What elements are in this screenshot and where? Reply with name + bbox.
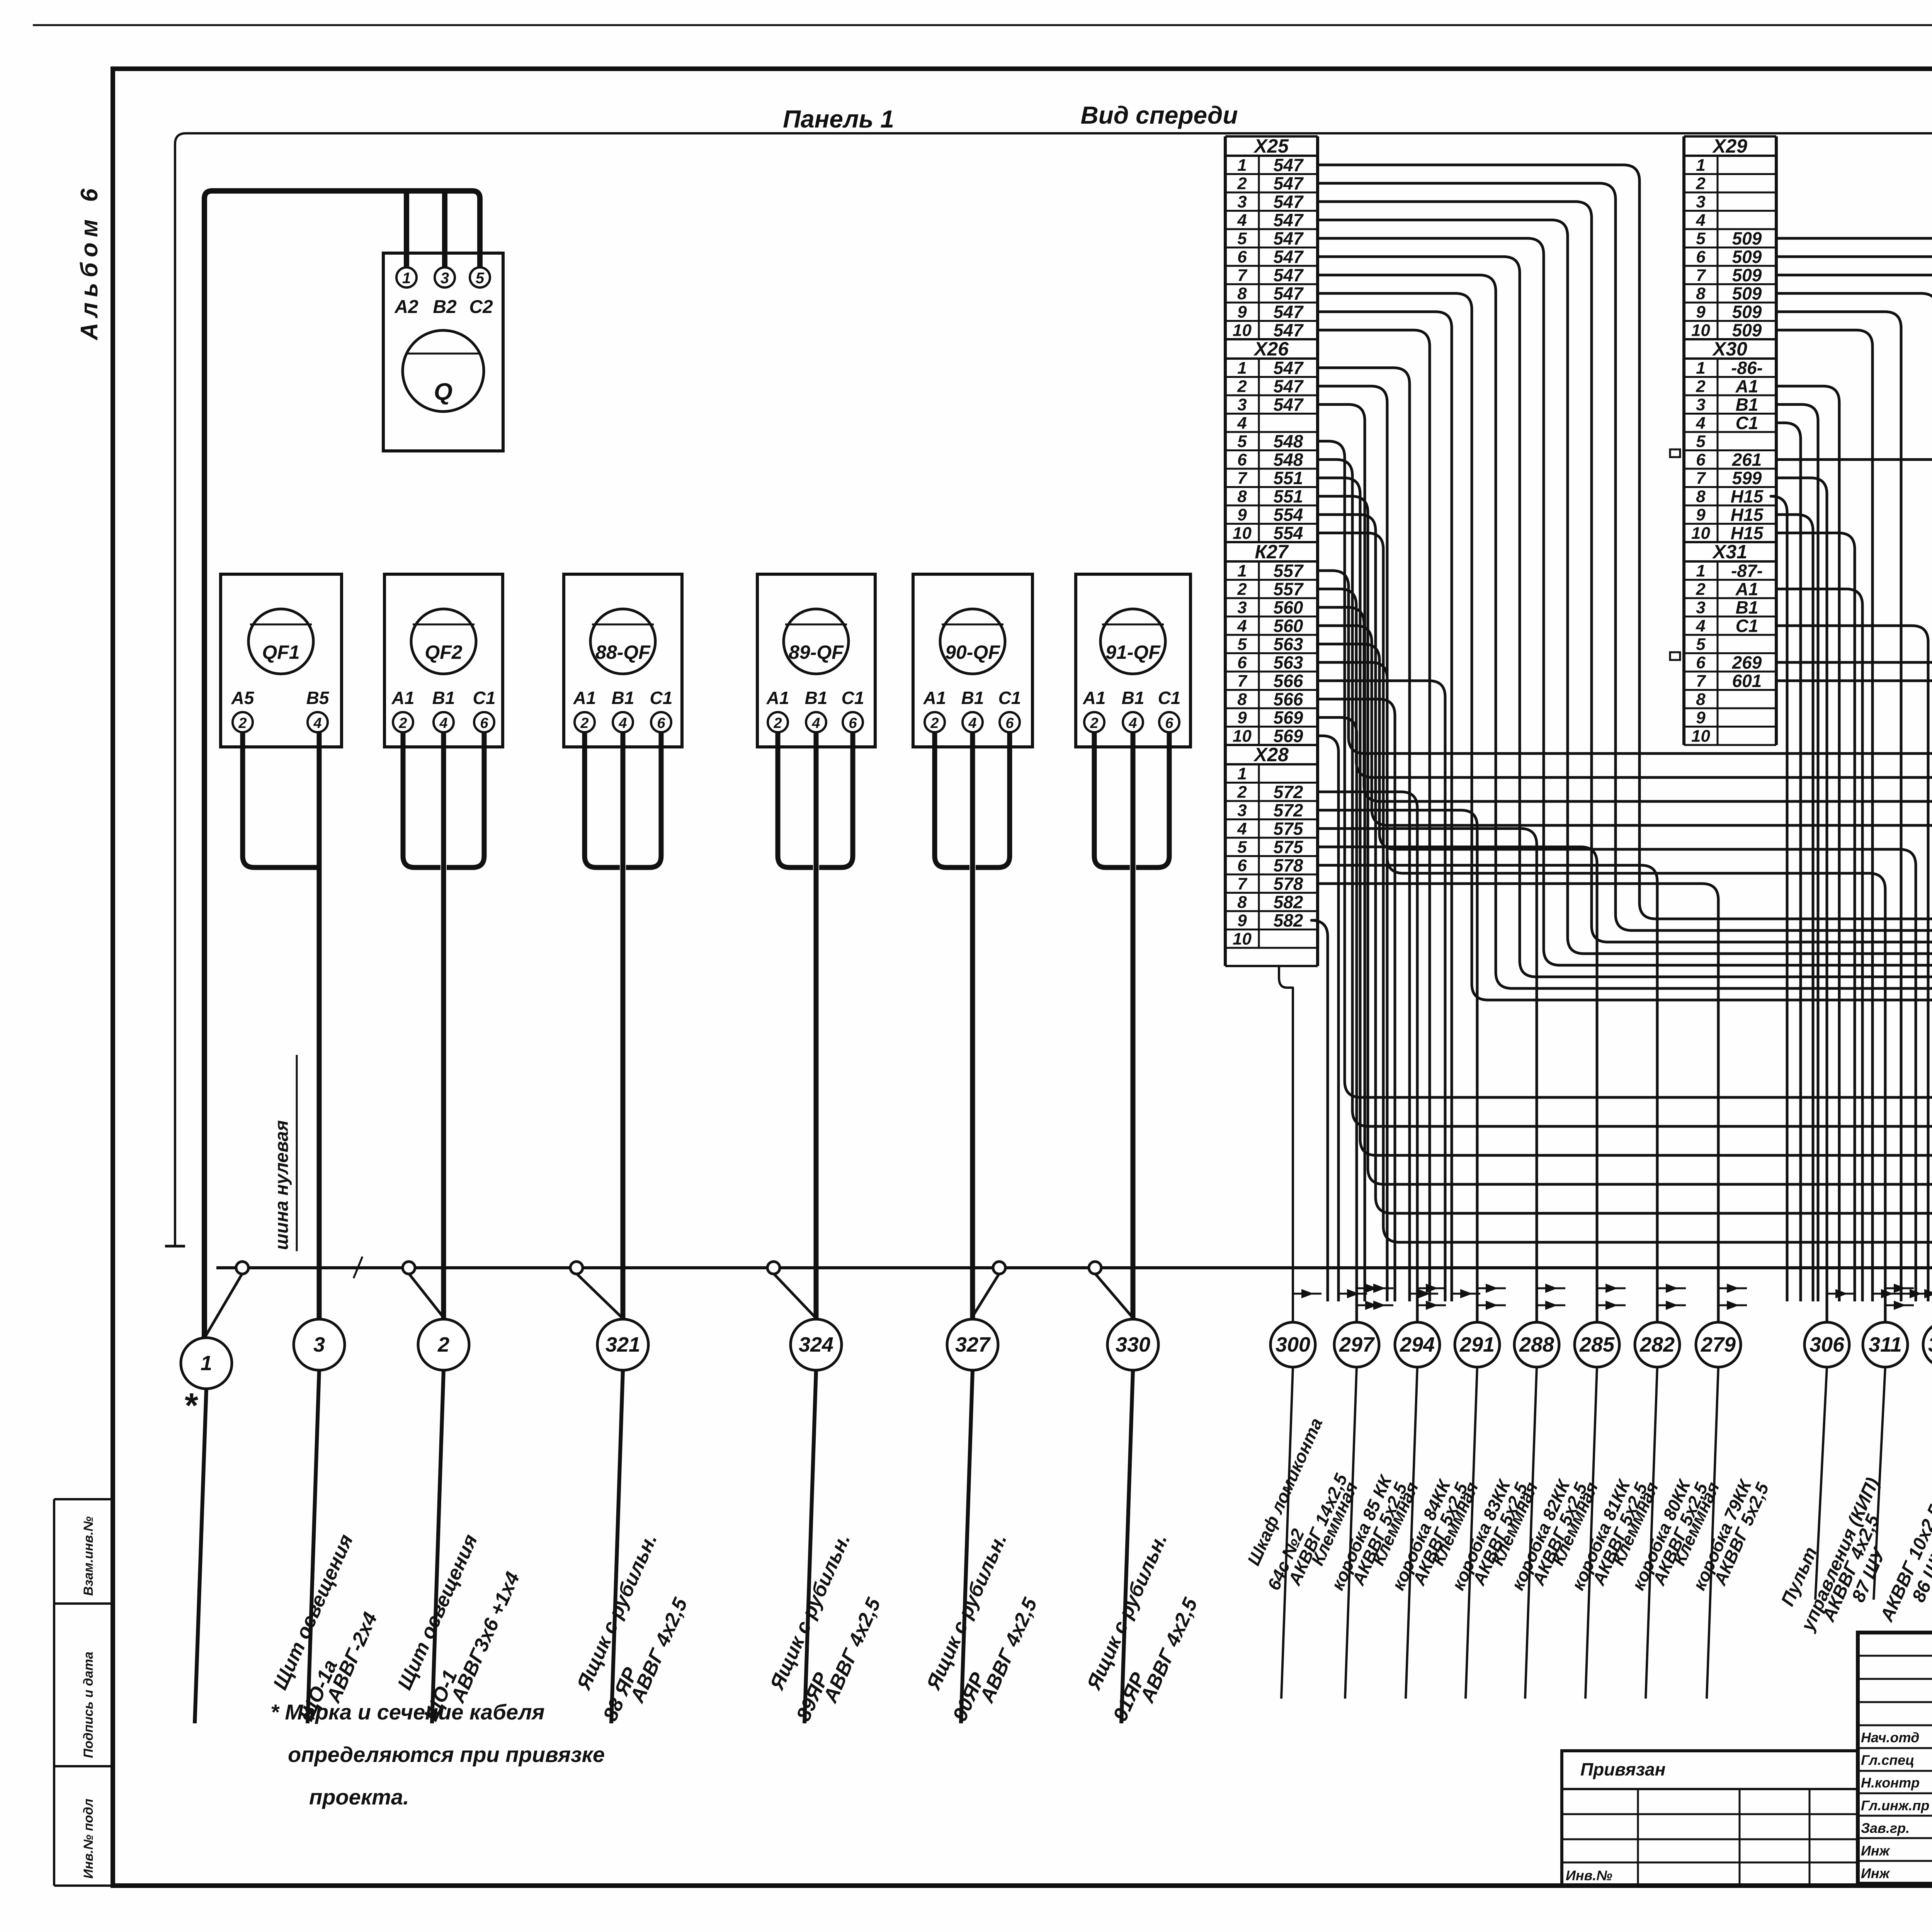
leader line of 285 (1585, 1367, 1597, 1699)
svg-text:Q: Q (434, 379, 452, 405)
circle node 311 (1863, 1322, 1908, 1367)
svg-text:10: 10 (1233, 524, 1252, 543)
svg-text:7: 7 (1237, 874, 1248, 893)
X25 row 1 val 547 (1225, 173, 1318, 175)
svg-text:578: 578 (1274, 874, 1303, 894)
svg-text:311: 311 (1869, 1333, 1902, 1356)
X31 row 2 val А1 (1684, 597, 1776, 599)
svg-text:6: 6 (1237, 248, 1247, 267)
X28 row 3 val 572 (1225, 818, 1318, 820)
svg-text:6: 6 (1165, 715, 1173, 731)
X25 row 5 val 547 (1225, 247, 1318, 248)
svg-text:4: 4 (968, 715, 976, 731)
svg-text:547: 547 (1274, 358, 1304, 378)
X28 row 1 val blank (1225, 782, 1318, 784)
leader line of 330 (1121, 1370, 1133, 1723)
svg-text:9: 9 (1237, 303, 1247, 321)
svg-text:2: 2 (1237, 580, 1247, 599)
svg-text:509: 509 (1732, 284, 1762, 304)
wire X29.9 (1776, 312, 1901, 1301)
X25 row 7 val 547 (1225, 283, 1318, 285)
wire X31.7 (1776, 681, 1932, 1301)
svg-text:5: 5 (1696, 432, 1706, 451)
svg-text:1: 1 (1237, 764, 1247, 783)
X28 row 9 val 582 (1225, 929, 1318, 930)
svg-text:551: 551 (1274, 468, 1303, 488)
X31 row 9 val blank (1684, 726, 1776, 728)
svg-text:566: 566 (1274, 671, 1303, 691)
svg-text:6: 6 (849, 715, 857, 731)
svg-text:-86-: -86- (1731, 358, 1763, 378)
neutral bus (шина нулевая) (216, 1266, 1932, 1269)
svg-text:6: 6 (1237, 451, 1247, 469)
wire X30.3 (1776, 405, 1818, 1301)
terminal strip X25 header (1225, 135, 1318, 138)
svg-text:269: 269 (1732, 653, 1762, 673)
svg-text:5: 5 (1696, 229, 1706, 248)
svg-text:554: 554 (1274, 505, 1303, 525)
X26 row 10 val 554 (1225, 541, 1318, 543)
wire X28.6 (1318, 865, 1657, 1322)
svg-text:5: 5 (1696, 635, 1706, 654)
terminal strip X31 header (1684, 541, 1776, 543)
wire K27.2 (1318, 589, 1932, 1322)
svg-text:554: 554 (1274, 523, 1303, 543)
X25 row 6 val 547 (1225, 265, 1318, 267)
svg-text:3: 3 (1696, 395, 1705, 414)
svg-text:6: 6 (1696, 653, 1706, 672)
X30 row 1 val -86- (1684, 376, 1776, 378)
leader line of 291 (1466, 1367, 1477, 1699)
svg-text:2: 2 (773, 715, 782, 731)
svg-text:304: 304 (1928, 1333, 1932, 1356)
svg-text:Н15: Н15 (1731, 486, 1764, 507)
X30 row 4 val С1 (1684, 431, 1776, 433)
svg-text:7: 7 (1696, 266, 1706, 285)
svg-text:определяются при привязке: определяются при привязке (288, 1742, 605, 1767)
X30 row 5 val blank (1684, 449, 1776, 451)
svg-text:4: 4 (439, 715, 447, 731)
svg-text:X25: X25 (1253, 135, 1289, 157)
wire stub to Q terminal 3 (442, 191, 447, 267)
svg-text:Гл.инж.пр: Гл.инж.пр (1861, 1798, 1929, 1813)
svg-text:547: 547 (1274, 155, 1304, 175)
svg-text:2: 2 (1237, 783, 1247, 802)
svg-text:А1: А1 (391, 688, 415, 708)
svg-text:547: 547 (1274, 192, 1304, 212)
svg-text:551: 551 (1274, 486, 1303, 507)
bus junction to circle 327 (969, 1274, 999, 1321)
wire K27.6 (1318, 662, 1885, 1322)
svg-text:578: 578 (1274, 855, 1303, 876)
terminal strip X26 header (1225, 338, 1318, 340)
X26 row 6 val 548 (1225, 468, 1318, 470)
svg-text:560: 560 (1274, 616, 1303, 636)
wires 90-QF merged down to circle 327 (935, 732, 969, 867)
wires 89-QF merged down to circle 324 (778, 732, 813, 867)
circle node 327 (947, 1319, 998, 1370)
svg-text:599: 599 (1732, 468, 1762, 488)
switch box Q (383, 253, 503, 451)
breaker box 89-QF (757, 574, 875, 747)
svg-text:В1: В1 (612, 688, 634, 708)
wire X28.8 drop to circle 300 (1279, 966, 1293, 1322)
svg-text:582: 582 (1274, 892, 1303, 912)
svg-text:2: 2 (580, 715, 588, 731)
svg-text:9: 9 (1696, 708, 1706, 727)
circle node 304 (1923, 1322, 1932, 1367)
svg-text:291: 291 (1459, 1333, 1495, 1356)
wire X30.7 to circle 306 (1776, 478, 1827, 1322)
wire X29.5 (1776, 238, 1932, 1301)
X29 row 3 val blank (1684, 210, 1776, 212)
svg-text:547: 547 (1274, 265, 1304, 285)
X28 row 7 val 578 (1225, 892, 1318, 894)
circle node 288 (1514, 1322, 1559, 1367)
sheet top trim line (33, 24, 1932, 26)
wire X25.8 (1318, 293, 1932, 1301)
svg-text:6: 6 (1237, 856, 1247, 875)
svg-text:Н15: Н15 (1731, 505, 1764, 525)
wire X28.9 (1311, 920, 1328, 1301)
X30 row 10 val Н15 (1684, 541, 1776, 543)
terminal strip X28 header (1225, 744, 1318, 746)
svg-text:8: 8 (1696, 690, 1706, 709)
К27 row 4 val 560 (1225, 634, 1318, 636)
К27 row 5 val 563 (1225, 652, 1318, 654)
wire X26.1 (1318, 368, 1410, 1301)
svg-text:В1: В1 (1736, 597, 1759, 617)
svg-text:2: 2 (1696, 377, 1706, 396)
svg-text:С1: С1 (650, 688, 673, 708)
wire X25.6 (1318, 257, 1932, 1301)
X25 row 2 val 547 (1225, 192, 1318, 194)
svg-text:601: 601 (1732, 671, 1762, 691)
svg-text:1: 1 (1696, 561, 1705, 580)
X28 row 4 val 575 (1225, 837, 1318, 839)
svg-text:324: 324 (799, 1333, 833, 1356)
wire X29.10 (1776, 330, 1872, 1301)
К27 row 3 val 560 (1225, 616, 1318, 617)
circle node 321 (597, 1319, 648, 1370)
wire K27.7 (1318, 681, 1445, 1301)
X29 row 7 val 509 (1684, 283, 1776, 285)
wire X26.10 (1318, 533, 1932, 1301)
svg-text:8: 8 (1237, 284, 1247, 303)
svg-text:509: 509 (1732, 228, 1762, 248)
bus junction to circle 324 (774, 1274, 819, 1321)
svg-text:10: 10 (1233, 930, 1252, 949)
breaker box 91-QF (1076, 574, 1190, 747)
wire X30.2 (1776, 386, 1839, 1301)
svg-text:10: 10 (1233, 727, 1252, 746)
wire K27.1 (1318, 571, 1932, 1301)
svg-text:509: 509 (1732, 247, 1762, 267)
svg-text:4: 4 (1696, 211, 1705, 230)
Привязан table (1562, 1751, 1858, 1886)
left table bottom blank strip (1225, 965, 1318, 967)
Q terminal 3 (435, 267, 455, 287)
svg-text:9: 9 (1237, 911, 1247, 930)
wire X25.2 (1318, 183, 1932, 1301)
connector stub X30-6 (1670, 449, 1680, 457)
svg-text:90-QF: 90-QF (945, 641, 1000, 663)
title block outer (1858, 1633, 1932, 1884)
svg-text:4: 4 (1237, 211, 1247, 230)
wire X31.2 (1776, 589, 1862, 1301)
svg-text:294: 294 (1400, 1333, 1435, 1356)
svg-text:А5: А5 (231, 688, 255, 708)
svg-text:285: 285 (1579, 1333, 1615, 1356)
X25 row 8 val 547 (1225, 302, 1318, 304)
svg-text:7: 7 (1237, 672, 1248, 690)
circle node 2 (418, 1319, 469, 1370)
svg-text:Подпись и дата: Подпись и дата (81, 1651, 96, 1758)
svg-text:2: 2 (1237, 174, 1247, 193)
svg-text:6: 6 (1005, 715, 1014, 731)
X31 row 5 val blank (1684, 652, 1776, 654)
circle node 324 (791, 1319, 842, 1370)
wire QF1 term 2 down and over (243, 732, 319, 867)
circle node 297 (1334, 1322, 1379, 1367)
X31 row 3 val В1 (1684, 616, 1776, 617)
wire K27.4 (1318, 626, 1932, 1322)
svg-text:547: 547 (1274, 376, 1304, 396)
X26 row 4 val blank (1225, 431, 1318, 433)
wire X25.3 (1318, 202, 1932, 1301)
svg-text:3: 3 (440, 270, 449, 287)
X29 row 10 val 509 (1684, 338, 1776, 340)
svg-text:4: 4 (1237, 617, 1247, 636)
svg-text:2: 2 (437, 1333, 449, 1356)
svg-text:91-QF: 91-QF (1105, 641, 1161, 663)
circle node 279 (1696, 1322, 1741, 1367)
X26 row 5 val 548 (1225, 449, 1318, 451)
breaker box QF1 (221, 574, 342, 747)
svg-text:2: 2 (1237, 377, 1247, 396)
leader line of 300 (1281, 1367, 1293, 1699)
svg-text:8: 8 (1696, 284, 1706, 303)
X29 row 8 val 509 (1684, 302, 1776, 304)
svg-text:297: 297 (1339, 1333, 1375, 1356)
X25 row 3 val 547 (1225, 210, 1318, 212)
bus junction to circle 330 (1095, 1274, 1136, 1321)
svg-text:А1: А1 (1083, 688, 1106, 708)
wire QF1 term 4 down to circle 3 (317, 732, 322, 1319)
svg-text:575: 575 (1274, 837, 1304, 857)
svg-text:548: 548 (1274, 431, 1303, 451)
svg-text:Нач.отд: Нач.отд (1861, 1730, 1919, 1745)
svg-text:А1: А1 (923, 688, 946, 708)
svg-text:10: 10 (1691, 524, 1710, 543)
table left side borders (1224, 136, 1227, 948)
svg-text:10: 10 (1691, 727, 1710, 746)
wire X26.6 (1318, 459, 1932, 1301)
svg-text:X28: X28 (1253, 744, 1289, 765)
svg-text:8: 8 (1237, 487, 1247, 506)
wire K27.5 (1318, 644, 1916, 1301)
svg-text:В1: В1 (1122, 688, 1145, 708)
svg-text:9: 9 (1237, 708, 1247, 727)
wire K27.3 (1318, 607, 1932, 1301)
X28 row 10 val blank (1225, 947, 1318, 949)
svg-text:569: 569 (1274, 707, 1303, 728)
К27 row 1 val 557 (1225, 579, 1318, 581)
svg-text:279: 279 (1701, 1333, 1736, 1356)
svg-text:3: 3 (1237, 598, 1247, 617)
X29 row 4 val blank (1684, 228, 1776, 230)
wire X28.5 (1318, 847, 1597, 1322)
wire X30.4 (1776, 423, 1801, 1301)
circle node 306 (1804, 1322, 1849, 1367)
X25 row 10 val 547 (1225, 338, 1318, 340)
leader line of 294 (1406, 1367, 1417, 1699)
bus junction to circle 1 (203, 1274, 242, 1340)
wire X25.1 (1318, 165, 1932, 1301)
svg-text:А1: А1 (766, 688, 789, 708)
svg-text:547: 547 (1274, 247, 1304, 267)
breaker box 88-QF (564, 574, 682, 747)
svg-text:3: 3 (313, 1333, 325, 1356)
svg-text:10: 10 (1691, 321, 1710, 340)
svg-text:8: 8 (1237, 690, 1247, 709)
X29 row 9 val 509 (1684, 320, 1776, 322)
svg-text:А1: А1 (1735, 579, 1759, 599)
wires QF2 merged down to circle 2 (403, 732, 440, 867)
svg-text:X29: X29 (1712, 135, 1747, 157)
svg-text:С1: С1 (1736, 616, 1759, 636)
wire X30.6 (1776, 459, 1932, 1301)
svg-text:Гл.спец: Гл.спец (1861, 1752, 1914, 1768)
svg-text:2: 2 (930, 715, 939, 731)
wire K27.10 (1318, 736, 1338, 1301)
leader line of 324 (804, 1370, 816, 1723)
svg-text:4: 4 (1237, 820, 1247, 838)
X28 row 5 val 575 (1225, 855, 1318, 857)
svg-text:560: 560 (1274, 597, 1303, 617)
X31 row 1 val -87- (1684, 579, 1776, 581)
svg-text:4: 4 (811, 715, 820, 731)
svg-text:572: 572 (1274, 782, 1303, 802)
svg-text:8: 8 (1237, 893, 1247, 912)
leader line of 1 (195, 1389, 206, 1723)
wire X29.7 (1776, 275, 1932, 1301)
svg-text:547: 547 (1274, 210, 1304, 230)
X30 row 8 val Н15 (1684, 505, 1776, 507)
sig table horizontal lines (1858, 1655, 1932, 1657)
bus junction to circle 2 (409, 1274, 447, 1321)
wire stub to Q terminal 1 (404, 191, 409, 267)
svg-text:6: 6 (1696, 248, 1706, 267)
svg-text:321: 321 (605, 1333, 640, 1356)
svg-text:Привязан: Привязан (1580, 1759, 1665, 1779)
wire X26.2 (1318, 386, 1387, 1301)
svg-text:572: 572 (1274, 800, 1303, 820)
leader line of 2 (432, 1370, 444, 1723)
X31 row 6 val 269 (1684, 671, 1776, 673)
circle node 291 (1455, 1322, 1500, 1367)
svg-text:509: 509 (1732, 302, 1762, 322)
svg-text:Инж: Инж (1861, 1866, 1891, 1881)
svg-text:А2: А2 (394, 297, 418, 317)
X31 row 8 val blank (1684, 707, 1776, 709)
svg-text:563: 563 (1274, 634, 1303, 654)
svg-text:5: 5 (1237, 635, 1247, 654)
X30 row 3 val В1 (1684, 413, 1776, 415)
table middle side borders (1682, 136, 1685, 745)
svg-text:566: 566 (1274, 689, 1303, 709)
svg-text:2: 2 (1696, 174, 1706, 193)
К27 row 7 val 566 (1225, 689, 1318, 691)
svg-text:6: 6 (657, 715, 665, 731)
svg-text:89-QF: 89-QF (789, 641, 844, 663)
leader line of 282 (1646, 1367, 1657, 1699)
svg-text:X31: X31 (1712, 541, 1747, 563)
svg-text:3: 3 (1696, 192, 1705, 211)
svg-text:С1: С1 (473, 688, 496, 708)
svg-text:5: 5 (1237, 432, 1247, 451)
leader line of 3 (308, 1370, 319, 1723)
breaker box 90-QF (913, 574, 1032, 747)
svg-text:7: 7 (1237, 469, 1248, 488)
svg-text:6: 6 (480, 715, 488, 731)
circle node 300 (1270, 1322, 1315, 1367)
wire X31.6 (1776, 662, 1932, 1301)
svg-text:1: 1 (1237, 561, 1247, 580)
circle node 1 (181, 1338, 232, 1389)
wire X26.5 (1318, 441, 1932, 1301)
svg-text:В1: В1 (805, 688, 828, 708)
X29 row 1 val blank (1684, 173, 1776, 175)
circle node 3 (294, 1319, 345, 1370)
svg-text:582: 582 (1274, 910, 1303, 930)
svg-text:А1: А1 (573, 688, 596, 708)
svg-text:С1: С1 (1736, 413, 1759, 433)
svg-text:К27: К27 (1255, 541, 1289, 563)
bus junction to circle 321 (577, 1274, 626, 1321)
svg-text:X26: X26 (1253, 338, 1289, 360)
X30 row 2 val А1 (1684, 395, 1776, 396)
svg-text:288: 288 (1519, 1333, 1554, 1356)
wire X28.2 (1318, 792, 1417, 1322)
svg-text:проекта.: проекта. (309, 1785, 409, 1809)
svg-text:5: 5 (1237, 229, 1247, 248)
wire X26.3 (1318, 405, 1365, 1301)
X25 row 4 val 547 (1225, 228, 1318, 230)
Q terminal 1 (396, 267, 417, 287)
svg-text:5: 5 (1237, 838, 1247, 857)
wires 91-QF merged down to circle 330 (1094, 732, 1130, 867)
wire X30.9 (1776, 515, 1813, 1301)
svg-text:4: 4 (1128, 715, 1137, 731)
svg-text:В5: В5 (306, 688, 330, 708)
wire X28.4 (1318, 828, 1537, 1322)
wire X25.10 (1318, 330, 1430, 1301)
svg-text:306: 306 (1810, 1333, 1845, 1356)
svg-text:3: 3 (1237, 801, 1247, 820)
svg-text:9: 9 (1696, 303, 1706, 321)
X31 row 4 val С1 (1684, 634, 1776, 636)
svg-text:7: 7 (1237, 266, 1248, 285)
svg-text:В1: В1 (432, 688, 455, 708)
svg-text:2: 2 (238, 715, 247, 731)
Q device circle (403, 330, 484, 412)
wire K27.9 (1318, 718, 1357, 1322)
circle node 330 (1107, 1319, 1158, 1370)
X28 row 2 val 572 (1225, 800, 1318, 802)
bus label tick (354, 1257, 362, 1278)
svg-text:QF1: QF1 (262, 641, 299, 663)
